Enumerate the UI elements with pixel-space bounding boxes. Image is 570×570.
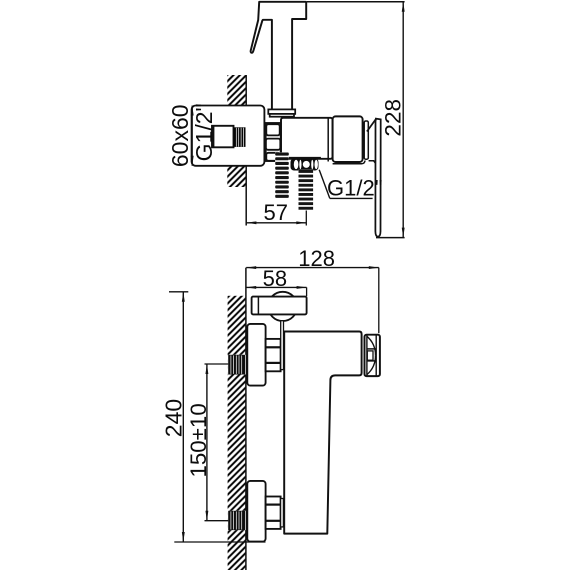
label G1/2" (hose) with leader — [319, 170, 372, 199]
handle blade — [375, 119, 380, 237]
lower fitting escutcheon — [247, 481, 265, 542]
outlet cap (shower connection) — [365, 335, 380, 376]
hose spring guard — [275, 152, 289, 199]
wall threads (upper fitting) — [228, 355, 246, 375]
wall right edge / extension line for 128,58 — [245, 268, 247, 570]
svg-text:58: 58 — [263, 266, 287, 291]
sprayer neck collar lower — [270, 114, 294, 117]
lower fitting washer — [281, 499, 284, 527]
lower fitting hex nut — [266, 497, 281, 529]
wall threads (upper) — [234, 127, 246, 147]
svg-text:G1/2": G1/2" — [327, 175, 383, 200]
svg-text:240: 240 — [161, 399, 187, 437]
lever bar — [252, 297, 307, 315]
svg-text:150±10: 150±10 — [186, 403, 211, 477]
valve body — [281, 118, 333, 159]
upper fitting hex nut — [266, 339, 281, 371]
threaded stub G1/2 — [298, 170, 313, 211]
knob circle — [268, 292, 297, 321]
handle hub strip — [364, 121, 368, 159]
hose nut (front view) — [291, 159, 319, 171]
wall right edge / extension line for 57 — [245, 75, 247, 226]
escutcheon square 60x60 — [192, 106, 265, 166]
dimension 128 — [246, 266, 379, 333]
dimension 150±10 — [205, 364, 229, 521]
dimension 58 — [246, 286, 306, 296]
upper fitting escutcheon — [247, 324, 265, 386]
wall section (upper view) hatched — [227, 75, 246, 187]
dimension 60x60 — [191, 106, 194, 166]
handle hub diagonal — [367, 119, 376, 132]
svg-text:G1/2": G1/2" — [191, 103, 217, 161]
dimension 240 — [169, 292, 266, 542]
square nipple head G1/2 — [212, 126, 234, 148]
dimension 57 — [246, 211, 306, 226]
sprayer head with trigger — [251, 2, 307, 110]
cap base lip — [333, 161, 365, 164]
dimension 228 — [306, 2, 404, 238]
sprayer neck collar upper — [268, 109, 295, 114]
svg-text:228: 228 — [381, 99, 406, 137]
wall threads (lower fitting) — [228, 511, 246, 530]
lever bar left cap divider — [257, 297, 259, 315]
svg-text:57: 57 — [264, 200, 288, 225]
hex nut (upper view) — [266, 123, 281, 161]
body/cap boundary line — [327, 119, 329, 162]
wall section (lower view) hatched — [228, 296, 246, 570]
handle hub lip — [369, 161, 376, 163]
cartridge cap — [333, 116, 363, 162]
svg-text:60x60: 60x60 — [167, 104, 193, 167]
knob stem — [281, 321, 284, 370]
mixer body (side view, pistol shape) — [284, 332, 361, 534]
svg-text:128: 128 — [298, 246, 335, 271]
